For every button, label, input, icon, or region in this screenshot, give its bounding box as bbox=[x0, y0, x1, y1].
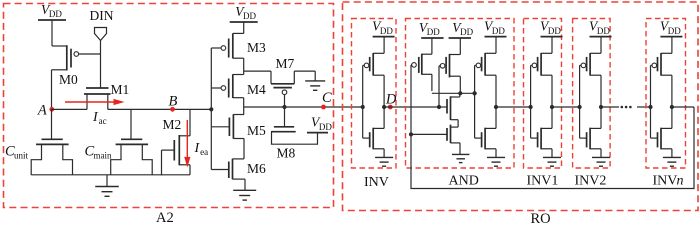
inverter INVn output column wire bbox=[671, 75, 673, 128]
inverter INV1 input riser wire bbox=[530, 65, 532, 138]
svg-text:DD: DD bbox=[319, 122, 332, 132]
svg-text:M0: M0 bbox=[59, 72, 78, 87]
wire from M1 to node B bbox=[108, 108, 212, 110]
svg-text:main: main bbox=[93, 151, 111, 161]
inverter INV1 output junction dot bbox=[550, 105, 554, 109]
svg-text:M4: M4 bbox=[247, 82, 266, 97]
AND output inverter input junction dot bbox=[473, 91, 477, 95]
svg-text:DD: DD bbox=[597, 26, 610, 36]
svg-text:INV: INV bbox=[653, 174, 678, 189]
svg-text:M5: M5 bbox=[247, 123, 266, 138]
svg-text:RO: RO bbox=[531, 211, 551, 224]
NAND PMOS U1a (feedback input) bbox=[411, 38, 432, 91]
svg-text:DD: DD bbox=[243, 11, 256, 21]
inverter INV2 NMOS transistor bbox=[580, 128, 601, 158]
AND output inverter ground symbol bbox=[487, 157, 505, 166]
inverter INV2 input riser wire bbox=[579, 65, 581, 138]
VDD rail (NAND pmos b) bbox=[449, 20, 474, 38]
transistor M1 (NMOS pass) bbox=[84, 82, 129, 109]
inverter INV2 PMOS transistor bbox=[580, 37, 601, 76]
ground rail wire bbox=[31, 174, 190, 176]
inverter INVn ground symbol bbox=[663, 157, 681, 166]
AND output inverter input riser wire bbox=[474, 65, 476, 138]
inverter INV2 output column wire bbox=[600, 75, 602, 128]
transistor M4 (PMOS) bbox=[211, 74, 266, 114]
node A bbox=[37, 103, 54, 119]
wire output node to C and RO input bbox=[244, 106, 363, 108]
AND output inverter output junction dot bbox=[494, 105, 498, 109]
inverter INV PMOS transistor bbox=[363, 37, 384, 76]
junction dot D/NAND gates bbox=[437, 105, 441, 109]
junction on M3-M6 gate line bbox=[209, 107, 213, 111]
label A2 bbox=[156, 210, 174, 226]
wire D to AND input bbox=[384, 106, 439, 108]
svg-text:DD: DD bbox=[492, 26, 505, 36]
power VDD rail (M8) bbox=[307, 115, 332, 133]
inverter INV2 VDD rail bbox=[589, 19, 612, 37]
inverter INV2 output junction dot bbox=[599, 105, 603, 109]
svg-text:C: C bbox=[322, 90, 332, 106]
svg-text:M1: M1 bbox=[111, 82, 130, 97]
svg-text:n: n bbox=[677, 174, 684, 189]
wire inverter INV2 output bbox=[601, 106, 619, 108]
svg-text:DD: DD bbox=[49, 9, 62, 19]
wire inverter INVn output bbox=[672, 106, 694, 108]
wire from node A to M1 bbox=[52, 108, 88, 110]
capacitor C_main (MOS cap) bbox=[85, 109, 153, 175]
svg-text:A: A bbox=[37, 103, 47, 119]
svg-text:A2: A2 bbox=[156, 210, 174, 224]
wire inverter INV1 output bbox=[552, 106, 580, 108]
junction dot NAND out / inv input bbox=[473, 91, 477, 95]
NAND NMOS U1d (feedback input) bbox=[411, 125, 460, 155]
wire D junction to NMOS a gate bbox=[439, 106, 447, 108]
inverter INVn PMOS transistor bbox=[651, 37, 672, 76]
transistor M3 (PMOS) bbox=[211, 33, 266, 74]
transistor M6 (NMOS) bbox=[211, 159, 266, 191]
current arrow Iac bbox=[65, 99, 125, 126]
gate line wire for M3-M6 bbox=[210, 48, 212, 170]
inverter INVn input riser wire bbox=[650, 65, 652, 138]
dashed box of INV2 bbox=[573, 19, 611, 169]
dashed box of AND bbox=[406, 19, 515, 169]
NAND NMOS U1c (D input) bbox=[447, 93, 460, 127]
inverter INV input riser wire bbox=[362, 65, 364, 138]
svg-text:D: D bbox=[385, 92, 397, 108]
inverter INV input junction dot bbox=[361, 105, 365, 109]
inverter INV VDD rail bbox=[372, 19, 395, 37]
inverter INVn input junction dot bbox=[648, 105, 652, 109]
label RO bbox=[531, 211, 551, 227]
ground symbol (A2 caps) bbox=[95, 175, 119, 197]
AND output inverter NMOS transistor bbox=[475, 128, 496, 158]
AND output inverter PMOS transistor bbox=[475, 37, 496, 76]
ground symbol (NAND) bbox=[452, 154, 470, 162]
label INV1 bbox=[527, 174, 559, 189]
svg-text:DD: DD bbox=[548, 26, 561, 36]
svg-text:M2: M2 bbox=[163, 117, 182, 132]
current arrow Iea bbox=[184, 120, 208, 168]
svg-text:unit: unit bbox=[14, 151, 29, 161]
NAND output net wire bbox=[432, 92, 475, 94]
svg-text:M8: M8 bbox=[277, 146, 296, 161]
svg-text:INV: INV bbox=[364, 175, 389, 190]
transistor M5 (NMOS) bbox=[211, 114, 266, 159]
transistor M0 (PMOS) bbox=[52, 45, 101, 108]
inverter INV ground symbol bbox=[375, 157, 393, 166]
svg-text:INV1: INV1 bbox=[527, 174, 559, 189]
junction dot NAND out / pmos b bbox=[458, 91, 462, 95]
svg-text:DD: DD bbox=[380, 26, 393, 36]
junction dot feedback/NMOS gate bbox=[409, 132, 413, 136]
NAND PMOS U1b (D input) bbox=[439, 38, 460, 107]
ground symbol (M6) bbox=[233, 190, 256, 200]
inverter INV2 input junction dot bbox=[578, 105, 582, 109]
dashed boundary box of block A2 bbox=[4, 4, 334, 208]
inverter INV1 NMOS transistor bbox=[531, 128, 552, 158]
dashed boundary box of block RO bbox=[343, 2, 699, 211]
label INVn bbox=[653, 174, 684, 189]
svg-text:B: B bbox=[169, 94, 178, 110]
input DIN pin symbol bbox=[95, 28, 107, 88]
svg-text:DD: DD bbox=[460, 27, 473, 37]
power VDD rail (M0) bbox=[38, 2, 66, 46]
svg-text:M7: M7 bbox=[276, 56, 295, 71]
inverter INV output junction dot bbox=[382, 105, 386, 109]
inverter INVn VDD rail bbox=[660, 19, 683, 37]
inverter INVn output junction dot bbox=[670, 105, 674, 109]
svg-text:ac: ac bbox=[99, 116, 107, 126]
inverter INV1 PMOS transistor bbox=[531, 37, 552, 76]
capacitor C_unit (MOS cap) bbox=[5, 109, 73, 175]
transistor M7 (PMOS cap) bbox=[244, 56, 316, 107]
inverter INVn NMOS transistor bbox=[651, 128, 672, 158]
inverter INV1 ground symbol bbox=[543, 157, 561, 166]
svg-text:DD: DD bbox=[427, 27, 440, 37]
dashed box of INVn bbox=[646, 19, 686, 169]
svg-text:ea: ea bbox=[200, 147, 208, 157]
inverter INV1 output column wire bbox=[551, 75, 553, 128]
junction dot at M7/M8 gates bbox=[282, 105, 286, 109]
dashed box of INV1 bbox=[524, 19, 562, 169]
inverter INV NMOS transistor bbox=[363, 128, 384, 158]
label AND bbox=[449, 174, 479, 189]
inverter INV2 ground symbol bbox=[592, 157, 610, 166]
ground symbol (M7) bbox=[305, 81, 325, 90]
svg-text:INV2: INV2 bbox=[575, 174, 607, 189]
inverter INV1 VDD rail bbox=[540, 19, 563, 37]
input DIN label bbox=[90, 8, 114, 23]
node C bbox=[321, 90, 332, 109]
AND output inverter VDD rail bbox=[484, 19, 507, 37]
label INV2 bbox=[575, 174, 607, 189]
svg-text:M3: M3 bbox=[247, 40, 266, 55]
wire ellipsis to INVn bbox=[637, 106, 651, 108]
feedback wire from INVn output to NAND input bbox=[411, 65, 694, 189]
transistor M2 (NMOS) bbox=[162, 109, 191, 175]
svg-text:M6: M6 bbox=[247, 161, 266, 176]
svg-text:DD: DD bbox=[668, 26, 681, 36]
transistor M8 (NMOS cap) bbox=[271, 107, 318, 161]
wire AND output inverter output bbox=[496, 106, 531, 108]
inverter INV1 input junction dot bbox=[529, 105, 533, 109]
node B bbox=[169, 94, 178, 112]
inverter INV output column wire bbox=[383, 75, 385, 128]
label INV bbox=[364, 175, 389, 190]
AND output inverter output column wire bbox=[495, 75, 497, 128]
ellipsis dots (more inverter stages) bbox=[621, 106, 632, 109]
VDD rail (NAND pmos a) bbox=[419, 20, 444, 38]
svg-text:DIN: DIN bbox=[90, 8, 114, 23]
power VDD rail (M3) bbox=[230, 4, 258, 33]
svg-text:AND: AND bbox=[449, 174, 479, 189]
dashed box of INV bbox=[352, 19, 397, 169]
node D bbox=[385, 92, 397, 110]
